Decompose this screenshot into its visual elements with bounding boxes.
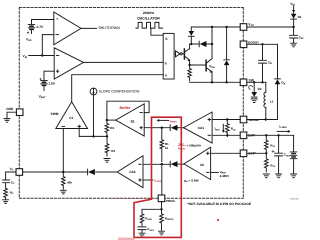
pin BAT [240, 132, 256, 139]
ground COUT [276, 174, 282, 178]
node Q1 emitter junction [188, 64, 190, 66]
pin OVP [240, 150, 257, 157]
ground 40k [60, 190, 66, 194]
svg-text:= 500µA/A: = 500µA/A [187, 144, 202, 148]
resistor RC [4, 188, 14, 200]
capacitor CAVG [138, 227, 154, 233]
rail SW bottom [190, 81, 241, 83]
wire summing row [79, 135, 107, 137]
node rail junction x212 [211, 43, 213, 45]
resistor R2 [105, 120, 114, 136]
amplifier VA [184, 147, 211, 179]
red highlight box [134, 117, 181, 237]
svg-text:0.7V: 0.7V [37, 25, 45, 29]
wire BOOST external [247, 43, 278, 45]
wire PROG to RAVG [142, 208, 162, 210]
node BAT RV1 [265, 134, 267, 136]
svg-text:R: R [165, 61, 167, 65]
node SW D2 [253, 81, 255, 83]
diode D2 catch [249, 82, 262, 97]
node slope junction [92, 135, 94, 137]
wire C1 minus input down to VC [62, 129, 64, 173]
wire B1 output [107, 119, 116, 121]
battery pack [290, 135, 297, 174]
svg-text:40k: 40k [67, 180, 72, 184]
oscillator waveform [136, 22, 163, 28]
svg-text:BOOST: BOOST [248, 40, 259, 44]
node VCC D1 junction [292, 26, 294, 28]
node SW rail Q2 [211, 81, 213, 83]
pin SW [240, 78, 255, 85]
wire SW external [247, 81, 266, 83]
wire A2 output to latch [84, 61, 164, 63]
wire GND external [7, 112, 16, 118]
wire SENSE internal [212, 119, 240, 121]
node BOOST CB junction [261, 43, 263, 45]
svg-text:GND: GND [6, 107, 14, 111]
transistor Q1 driver [184, 49, 189, 62]
diode D8 VC line [88, 169, 95, 175]
amplifier CA2 [117, 156, 143, 188]
capacitor CIN [290, 27, 304, 43]
battery VSD 0.7V [27, 20, 35, 34]
ground R3 [104, 159, 110, 163]
capacitor CC [3, 180, 15, 188]
ground GND pin [4, 119, 10, 123]
wire B1 plus row to CA1 [144, 127, 170, 129]
wire VC external [6, 172, 16, 180]
wire battery to comparator plus input [32, 19, 54, 21]
ground D2 [251, 99, 257, 103]
label VREF 2.465V [220, 170, 230, 178]
svg-text:CA1: CA1 [198, 126, 205, 130]
svg-text:CA2: CA2 [129, 170, 136, 174]
inductor L1 [264, 82, 274, 119]
svg-text:L1: L1 [270, 99, 274, 103]
diode D3 top vertical [189, 27, 195, 44]
wire OVP internal [211, 152, 241, 154]
node L1 sense junction [265, 118, 267, 120]
transistor Q2 QSW [206, 59, 215, 74]
resistor RV1 [264, 135, 276, 153]
diode D4 horizontal [191, 41, 212, 47]
svg-text:SHUTDOWN: SHUTDOWN [98, 26, 120, 30]
ground CIN [291, 43, 297, 47]
red smudge bottom [118, 238, 135, 240]
buffer B1 [116, 104, 145, 136]
pin PROG [158, 195, 175, 203]
node D3 junction [190, 43, 192, 45]
wire PROG down [161, 202, 163, 210]
node RS1 top [226, 118, 228, 120]
inverter driver gate [174, 51, 182, 57]
pin BOOST [240, 40, 259, 47]
ground battery [291, 174, 297, 178]
resistor RS1 [226, 120, 237, 137]
wire VIN arrow [292, 6, 295, 13]
battery VBAT 1.5V [40, 71, 48, 90]
wire B1 feedback loop [107, 101, 149, 120]
wire Q1 emitter down [189, 60, 191, 65]
svg-text:Buffer: Buffer [120, 106, 131, 110]
rail VCC top [191, 26, 240, 28]
node SW rail D5 [225, 81, 227, 83]
node B1 output junction [106, 119, 108, 121]
wire BAT internal [212, 134, 240, 136]
arrow ICHRG [277, 130, 290, 133]
svg-text:B1: B1 [131, 120, 135, 124]
wire CA2 plus stub [143, 179, 153, 181]
svg-text:PROG: PROG [166, 199, 176, 203]
svg-text:C1: C1 [69, 116, 73, 120]
svg-text:R: R [165, 74, 167, 78]
ground RC [3, 200, 9, 204]
svg-text:*NOT AVAILABLE IN 8-PIN SO PAC: *NOT AVAILABLE IN 8-PIN SO PACKAGE [187, 202, 252, 206]
node RS1 bottom [226, 134, 228, 136]
resistor 40k [62, 172, 73, 189]
label IPROG red with arrow [157, 119, 178, 124]
node PROG junction [160, 208, 162, 210]
pin SENSE [240, 116, 258, 123]
resistor RPROG [160, 209, 174, 230]
wire VCC external [247, 26, 294, 28]
svg-text:R2: R2 [110, 126, 114, 130]
wire slope source down [93, 95, 95, 136]
svg-text:OVP*: OVP* [248, 152, 257, 156]
ground RPROG [159, 231, 165, 235]
diode D6 CA1 output [170, 125, 183, 131]
resistor RV2 [264, 153, 276, 172]
wire Q1 emitter to Q2 base [190, 64, 207, 66]
svg-text:R3: R3 [111, 149, 115, 153]
resistor R4 emitter [188, 65, 192, 81]
diode D1 [291, 13, 302, 27]
capacitor COUT [272, 135, 291, 174]
arrow IBAT [215, 124, 225, 133]
svg-text:1510 BD: 1510 BD [290, 197, 299, 200]
ground CAVG [139, 233, 145, 237]
node VC junction [62, 171, 64, 173]
wire battery to A2 plus input [44, 70, 54, 72]
wire shutdown output [81, 27, 97, 29]
node rail x212 [211, 26, 213, 28]
wire VA minus VREF stub [211, 171, 219, 173]
node SW CB [261, 81, 263, 83]
svg-text:VC: VC [10, 167, 14, 172]
svg-text:2.465V: 2.465V [220, 174, 230, 178]
node BAT COUT [277, 134, 279, 136]
wire C1 plus input down [78, 129, 80, 137]
diode DB [275, 44, 286, 119]
pin VC [10, 167, 23, 175]
pin VCC [240, 22, 254, 30]
node IPROG junction bottom [161, 163, 163, 165]
node VIN junction [41, 54, 43, 56]
pin GND [6, 107, 23, 115]
IC boundary dashed border [19, 8, 243, 199]
wire SENSE external [247, 119, 278, 121]
wire C2 minus input [42, 35, 54, 56]
wire VIN rail [29, 55, 55, 57]
comparator A2 [54, 48, 83, 79]
wire Q2 emitter down [211, 72, 213, 83]
wire PROG riser [161, 164, 163, 195]
red label gain formula [178, 141, 202, 150]
node rail x226.6 [225, 26, 227, 28]
ground RV2 [263, 174, 269, 178]
wire VC row [23, 171, 88, 173]
svg-text:SLOPE COMPENSATION: SLOPE COMPENSATION [99, 90, 140, 94]
svg-text:200kHz: 200kHz [143, 11, 155, 15]
svg-text:1.5V: 1.5V [48, 82, 56, 86]
node OVP RV junction [265, 152, 267, 154]
wire CA2 minus row [143, 163, 170, 165]
wire OVP external [247, 152, 266, 154]
wire Q1 collector up [189, 44, 191, 49]
svg-text:PWM: PWM [51, 112, 59, 116]
wire C1 output to latch [72, 75, 164, 102]
svg-text:D1: D1 [298, 15, 302, 19]
resistor RAVG [140, 209, 152, 226]
label 200kHz OSCILLATOR [137, 11, 160, 20]
wire Q2 collector up [211, 27, 213, 59]
comparator C2 shutdown [54, 12, 81, 45]
wire BAT external [247, 134, 294, 136]
node summing R2R3 [106, 135, 108, 137]
capacitor CB [259, 44, 273, 82]
amplifier CA1 [184, 112, 213, 143]
svg-text:1k: 1k [165, 146, 169, 150]
diode D7 VA output [170, 161, 184, 167]
svg-text:D2: D2 [258, 87, 262, 91]
wire gate to Q1 base [182, 53, 184, 55]
wire oscillator to latch S input [151, 28, 163, 35]
svg-text:VSD: VSD [26, 38, 32, 43]
resistor R3 [105, 136, 115, 156]
resistor R1 1k [160, 128, 169, 162]
red speck [217, 219, 219, 221]
diode D5 vertical flyback [224, 27, 230, 82]
svg-text:VA: VA [200, 163, 205, 167]
svg-text:OSCILLATOR: OSCILLATOR [137, 16, 160, 20]
current source slope compensation [90, 88, 97, 95]
comparator C1 PWM [56, 102, 88, 129]
red overshoot stroke [112, 197, 150, 199]
latch U1 [163, 33, 174, 79]
wire CA2 output [96, 171, 118, 173]
node IPROG junction top [161, 127, 163, 129]
